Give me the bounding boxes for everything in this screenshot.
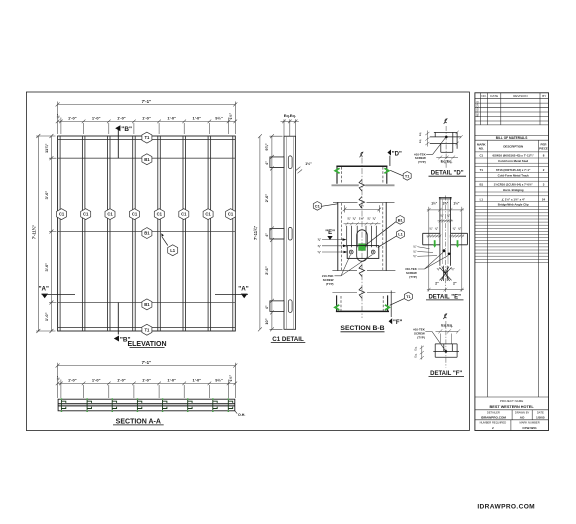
centerline symbol detail D (444, 118, 448, 124)
svg-text:6SW16 (600S162-43) x 7'-11¾": 6SW16 (600S162-43) x 7'-11¾" (493, 154, 535, 158)
svg-text:REVISIONS: REVISIONS (476, 101, 480, 117)
svg-text:MARK NUMBER: MARK NUMBER (520, 421, 540, 425)
detail flag D (387, 150, 402, 167)
svg-text:3'-0": 3'-0" (44, 263, 49, 272)
svg-text:BY: BY (542, 94, 546, 98)
svg-text:DATE: DATE (537, 410, 544, 414)
hexagon label L1 with leader (161, 233, 178, 255)
svg-text:1'-0": 1'-0" (117, 378, 126, 383)
C1 detail top Eq.Eq. dimension (281, 119, 299, 136)
elevation left overall dimension 7'-11 3/4" (36, 134, 56, 333)
svg-text:2'-6": 2'-6" (264, 266, 269, 275)
svg-text:10": 10" (264, 318, 269, 324)
O.H. note (235, 411, 246, 417)
svg-text:B1: B1 (144, 157, 150, 162)
elevation overall dimension 7'-1" top (56, 102, 238, 135)
detail E bottom X brace (440, 266, 452, 281)
svg-text:1½": 1½" (431, 202, 437, 206)
section A-A bridging channel double line (58, 404, 235, 406)
svg-text:1'-0": 1'-0" (192, 116, 201, 121)
svg-text:1'-0": 1'-0" (142, 378, 151, 383)
break squiggle 3 (359, 265, 365, 277)
svg-text:Eq.: Eq. (418, 132, 422, 137)
svg-text:1/5/05: 1/5/05 (536, 415, 545, 419)
svg-text:7'-11¾": 7'-11¾" (31, 225, 36, 239)
section B-B bottom track T1 (336, 295, 389, 311)
svg-text:Cold-Form Metal Stud: Cold-Form Metal Stud (498, 159, 528, 163)
svg-text:1'-0": 1'-0" (167, 116, 176, 121)
detail F screw dot with leader (445, 350, 448, 353)
C1 detail dimension chain (270, 134, 284, 331)
svg-text:PIECE: PIECE (539, 146, 548, 150)
svg-text:C1: C1 (315, 203, 321, 208)
elevation title (127, 341, 166, 348)
svg-text:"B": "B" (121, 126, 132, 133)
elevation top track T1 double line (58, 138, 236, 140)
section A-A title (113, 418, 164, 425)
svg-text:C1: C1 (157, 212, 163, 217)
T1 hexagon bottom with leader (390, 292, 413, 305)
elevation bridging B1 row 2 (58, 231, 236, 233)
detail E centerline (444, 196, 446, 293)
thin break line 2 (333, 201, 395, 203)
left #10-TEK screw label with leaders (322, 274, 334, 286)
thin break line 3 (332, 270, 395, 272)
C1 detail overall dimension 7'-11 3/4" (258, 134, 262, 331)
svg-text:4": 4" (360, 205, 364, 209)
svg-text:1'-0": 1'-0" (68, 116, 77, 121)
green screw marks top track (335, 168, 389, 173)
section cut line B-B bottom (117, 303, 119, 335)
section B-B top track T1 (336, 166, 387, 183)
svg-text:DATE: DATE (490, 94, 498, 98)
svg-text:1'-0": 1'-0" (117, 116, 126, 121)
svg-text:Eq.: Eq. (413, 346, 417, 351)
svg-text:4": 4" (265, 305, 269, 309)
svg-text:Cold-Form Metal Track: Cold-Form Metal Track (498, 173, 530, 177)
svg-text:C1: C1 (228, 212, 234, 217)
detail E green arrows (433, 240, 459, 248)
detail E second dim cluster (429, 227, 462, 231)
svg-text:"E": "E" (325, 230, 335, 236)
svg-text:C1: C1 (83, 212, 89, 217)
svg-text:C1: C1 (59, 212, 65, 217)
svg-text:7'-1": 7'-1" (142, 360, 151, 365)
section A-A green screw dots (61, 398, 229, 412)
svg-text:1½": 1½" (453, 202, 459, 206)
svg-text:⅞": ⅞" (352, 216, 356, 220)
C1 detail bridging channel stub 1 (270, 157, 284, 168)
C1 detail web punchout slot 2 (288, 227, 292, 240)
svg-text:T1: T1 (144, 135, 150, 140)
svg-text:4": 4" (265, 233, 269, 237)
svg-text:IDRAWPRO.COM: IDRAWPRO.COM (481, 415, 507, 419)
svg-text:1'-0": 1'-0" (92, 116, 101, 121)
revisions table header text (476, 94, 547, 117)
svg-text:L1: L1 (480, 197, 484, 201)
detail D bottom Eq.Eq. dimension (436, 156, 458, 160)
hexagon label T1 top (142, 132, 152, 143)
detail D centerline (445, 126, 447, 169)
svg-text:4": 4" (265, 161, 269, 165)
detail E small dims below (440, 214, 451, 218)
section marker B bottom (114, 336, 131, 344)
bill of materials column headers (477, 143, 548, 151)
svg-text:IDRAWPRO.COM: IDRAWPRO.COM (477, 503, 535, 510)
svg-text:1'-0": 1'-0" (92, 378, 101, 383)
detail D track and stud lines (430, 131, 463, 153)
section marker B top (115, 125, 132, 133)
L1 hexagon with leader (378, 230, 405, 248)
svg-text:REVISION: REVISION (513, 94, 527, 98)
svg-text:1½": 1½" (442, 202, 448, 206)
svg-text:"A": "A" (238, 286, 248, 293)
svg-text:DESCRIPTION: DESCRIPTION (503, 145, 523, 149)
BOM row T1 track (480, 168, 545, 177)
detail E left fraction arrows (413, 245, 417, 259)
elevation bridging B1 row 3 (58, 302, 236, 304)
B1 hexagon with leader (366, 216, 404, 246)
svg-text:"A": "A" (39, 286, 49, 293)
section B-B title (340, 325, 384, 332)
bill of materials row lines (475, 158, 549, 262)
C1 detail bridging channel stub 3 (270, 301, 284, 312)
detail E #10-TEK label with leaders (405, 267, 417, 279)
svg-text:1½": 1½" (229, 113, 233, 120)
svg-text:AO: AO (520, 415, 525, 419)
detail flag E (325, 230, 335, 240)
break squiggle 4 (359, 287, 365, 299)
thin break line 4 (332, 292, 395, 294)
svg-text:C1 DETAIL: C1 DETAIL (272, 336, 304, 343)
detail F track and stud lines (433, 344, 459, 357)
elevation interior studs C1 (double lines) (82, 136, 210, 331)
T1 hexagon top with leader (390, 170, 411, 180)
C1 hexagon label with leader (313, 202, 337, 211)
detail F title (429, 371, 465, 377)
svg-text:2": 2" (453, 281, 457, 285)
svg-text:L1: L1 (170, 248, 176, 253)
svg-text:Eq.: Eq. (413, 353, 417, 358)
svg-text:6T16 (600T125-43) x 7'-1": 6T16 (600T125-43) x 7'-1" (496, 168, 531, 172)
green bridging channel mark (359, 244, 366, 251)
svg-text:T1: T1 (480, 168, 484, 172)
svg-text:(TYP): (TYP) (409, 275, 417, 279)
svg-text:C1: C1 (479, 154, 483, 158)
green screw marks bottom track (335, 305, 389, 310)
svg-text:7'-11¾": 7'-11¾" (253, 226, 258, 240)
svg-text:Eq.Eq.: Eq.Eq. (441, 323, 453, 327)
detail D left Eq dimension (425, 131, 429, 147)
svg-text:1'-0": 1'-0" (142, 116, 151, 121)
svg-text:B1: B1 (144, 231, 150, 236)
svg-text:Horiz. Bridging: Horiz. Bridging (503, 188, 524, 192)
svg-text:1'-0": 1'-0" (192, 378, 201, 383)
elevation bridging B1 row 1 (58, 157, 236, 159)
C1 detail stud body (284, 136, 296, 329)
section cut line B-B top (117, 128, 119, 159)
svg-text:3'-0": 3'-0" (44, 191, 49, 200)
detail F #10-TEK label (413, 328, 425, 340)
svg-text:9½": 9½" (215, 378, 223, 383)
svg-text:BEST WESTERN HOTEL: BEST WESTERN HOTEL (490, 405, 535, 409)
svg-text:ELEVATION: ELEVATION (127, 341, 166, 348)
svg-text:⅞": ⅞" (367, 216, 371, 220)
svg-text:∠ 1½" x 1½" x 4": ∠ 1½" x 1½" x 4" (501, 197, 525, 201)
svg-text:CFW-W01: CFW-W01 (522, 426, 537, 430)
svg-text:1½": 1½" (359, 216, 365, 220)
svg-text:½": ½" (56, 376, 60, 381)
detail E bottom 2" dimensions (435, 281, 457, 285)
section A-A track outline (58, 399, 235, 411)
svg-text:"D": "D" (392, 151, 402, 157)
detail E bridging channel flanges (423, 233, 468, 245)
detail D screw dot with leader (445, 136, 448, 139)
detail D title (429, 171, 467, 177)
bridging channel and clip verticals (347, 226, 377, 247)
centerline symbol top (360, 152, 364, 158)
screws in clip plate (349, 250, 375, 254)
svg-text:DRAWN BY: DRAWN BY (515, 410, 530, 414)
title block outer box (475, 93, 549, 431)
svg-text:2": 2" (435, 281, 439, 285)
svg-text:⅞": ⅞" (347, 216, 351, 220)
small dimension cluster (347, 216, 377, 220)
elevation bottom track T1 double line (58, 327, 236, 329)
BOM row L1 clip (480, 197, 546, 206)
break squiggle 1 (359, 180, 365, 192)
svg-text:2: 2 (492, 426, 494, 430)
elevation left dimension chain (49, 134, 57, 333)
svg-text:B1: B1 (398, 217, 404, 222)
svg-text:11¾": 11¾" (44, 143, 49, 153)
C1 detail bridging channel stub 2 (270, 228, 284, 239)
svg-text:PROJECT NAME: PROJECT NAME (500, 399, 523, 403)
svg-text:½": ½" (56, 114, 60, 119)
centerline of section B-B (361, 158, 363, 319)
svg-text:1½CR16 (1CU50-54) x 7'-0½": 1½CR16 (1CU50-54) x 7'-0½" (494, 183, 534, 187)
C1 detail 1 1/2" slot callout (296, 162, 312, 174)
elevation wall outline (58, 136, 236, 331)
svg-text:B1: B1 (144, 302, 150, 307)
hexagon label T1 bottom (142, 324, 152, 335)
svg-text:Eq.Eq.: Eq.Eq. (441, 159, 453, 163)
bill of materials header bar (475, 135, 549, 397)
detail F left Eq dimension (420, 346, 424, 360)
svg-text:DETAIL "E": DETAIL "E" (428, 294, 461, 300)
BOM row B1 bridging (479, 183, 544, 192)
clip angle plate L1 (347, 246, 379, 259)
elevation edge stud inner lines (60, 136, 233, 331)
section marker A right (215, 286, 249, 299)
svg-text:1'-0": 1'-0" (68, 378, 77, 383)
4 inch dimension (343, 205, 381, 212)
section B-B stud flange lines (338, 202, 386, 270)
svg-text:24: 24 (542, 197, 546, 201)
svg-text:2'-6": 2'-6" (264, 194, 269, 203)
svg-text:DETAIL "F": DETAIL "F" (430, 371, 462, 377)
svg-text:9½": 9½" (215, 116, 223, 121)
centerline symbol detail F (443, 313, 447, 319)
detail E stud web top (439, 197, 452, 265)
svg-text:9¾": 9¾" (264, 143, 269, 150)
hexagon label B1 row2 (142, 228, 152, 239)
section A-A stud C-profiles (61, 400, 232, 410)
svg-text:1½": 1½" (229, 375, 233, 382)
svg-text:⅞": ⅞" (372, 216, 376, 220)
svg-text:7'-1": 7'-1" (142, 99, 151, 104)
hexagon label B1 row1 (142, 154, 152, 165)
C1 detail web punchout slot 1 (288, 156, 292, 169)
project name box (475, 397, 549, 431)
svg-text:Bridge/Web Angle Clip: Bridge/Web Angle Clip (498, 203, 529, 207)
elevation stud spacing dimension row (56, 118, 237, 135)
section A-A spacing dimension row (56, 380, 237, 399)
thick gray break band below top track (332, 184, 395, 186)
svg-text:NUMBER REQUIRED: NUMBER REQUIRED (480, 421, 507, 425)
break squiggle 2 (359, 197, 365, 209)
hexagon label B1 row3 (142, 299, 152, 310)
svg-text:C1: C1 (205, 212, 211, 217)
left fraction arrows (322, 240, 346, 252)
detail F centerline (445, 321, 447, 368)
section marker A left (39, 286, 75, 299)
svg-text:(TYP): (TYP) (417, 335, 425, 339)
svg-text:BILL OF MATERIALS: BILL OF MATERIALS (496, 136, 528, 140)
svg-text:C1: C1 (132, 212, 138, 217)
svg-text:C1: C1 (107, 212, 113, 217)
svg-text:"F": "F" (393, 320, 403, 326)
svg-text:O.H.: O.H. (238, 413, 245, 417)
detail E title (426, 294, 464, 300)
hexagon labels C1 on studs (57, 209, 236, 220)
svg-text:DETAIL "D": DETAIL "D" (431, 171, 464, 177)
svg-text:SECTION B-B: SECTION B-B (340, 325, 384, 332)
svg-text:(TYP): (TYP) (326, 282, 334, 286)
svg-text:Eq.Eq.: Eq.Eq. (284, 113, 296, 118)
svg-text:DETAILER: DETAILER (487, 410, 500, 414)
revisions table (475, 93, 549, 125)
stud web punchout (obround) (357, 230, 368, 261)
svg-text:1'-0": 1'-0" (167, 378, 176, 383)
detail E top dimension 1.5" x3 (431, 202, 460, 206)
svg-text:1'-0": 1'-0" (44, 312, 49, 321)
svg-text:SECTION A-A: SECTION A-A (116, 418, 161, 425)
detail E screws (443, 249, 446, 252)
svg-text:Eq.: Eq. (418, 139, 422, 144)
svg-text:B1: B1 (479, 183, 483, 187)
section A-A overall dimension 7'-1" (56, 363, 238, 398)
svg-text:NO.: NO. (481, 94, 487, 98)
svg-text:T1: T1 (144, 327, 150, 332)
svg-text:C1: C1 (181, 212, 187, 217)
svg-text:NO.: NO. (479, 146, 484, 150)
C1 detail web punchout slot 3 (288, 300, 292, 313)
detail D #10-TEK label (414, 152, 426, 164)
detail flag F (389, 291, 403, 327)
svg-text:(TYP): (TYP) (418, 160, 426, 164)
svg-text:1½": 1½" (305, 162, 312, 166)
BOM row C1 stud (479, 154, 544, 163)
C1 detail title (271, 336, 306, 343)
